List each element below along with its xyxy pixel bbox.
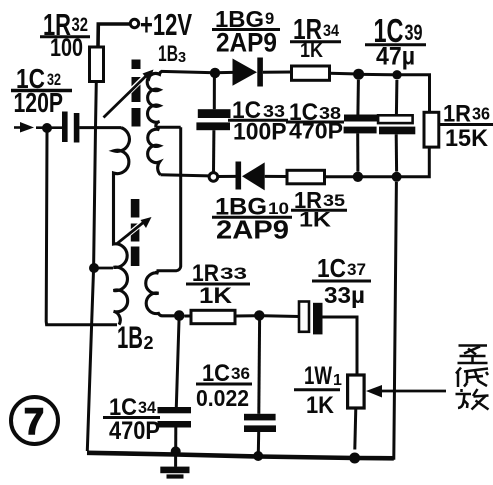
svg-text:120P: 120P [14, 87, 64, 118]
char 低 [456, 368, 461, 374]
core of transformer B3 (dashed bars) [132, 60, 141, 127]
wire left return line from input node down and right to winding bottom [46, 132, 117, 325]
wire C32 to winding top [79, 126, 121, 129]
capacitor C39 electrolytic positive plate (hollow) [378, 115, 413, 123]
wire tap line down to B2 tertiary top [157, 127, 181, 271]
node top rail junction 2 [392, 70, 401, 79]
label R33 [186, 260, 250, 308]
label R34 [290, 14, 341, 62]
wire ring node to diode BG10 [218, 175, 236, 178]
resistor R33 body [191, 310, 235, 323]
resistor R35 body [287, 170, 325, 184]
svg-text:36: 36 [472, 104, 490, 124]
svg-text:3: 3 [178, 50, 186, 66]
wire R36 to bottom rail corner [400, 147, 429, 177]
svg-text:1K: 1K [306, 392, 334, 419]
wire R33 to node [235, 314, 255, 317]
wire node to C37 [264, 314, 299, 318]
capacitor C37 negative plate [313, 303, 323, 335]
label C36 [196, 360, 252, 411]
svg-text:1: 1 [333, 372, 342, 389]
node ring junction at diode row [209, 173, 218, 182]
wire junction to C32 [36, 126, 62, 129]
node top-left junction [210, 68, 220, 78]
transformer B3 secondary winding (right coil upper) [147, 71, 162, 127]
label C39 [365, 12, 426, 71]
svg-text:0.022: 0.022 [196, 385, 249, 411]
capacitor C39 negative plate [379, 127, 415, 135]
wire BG9 to R34 [263, 71, 292, 74]
wiper arrow of W1 [382, 390, 447, 393]
svg-text:1C: 1C [317, 253, 346, 283]
svg-text:39: 39 [405, 20, 423, 45]
svg-text:1B: 1B [117, 319, 143, 355]
svg-text:1W: 1W [304, 362, 332, 390]
svg-text:100P: 100P [233, 119, 287, 146]
svg-text:+12V: +12V [140, 7, 192, 42]
svg-text:34: 34 [138, 398, 157, 417]
label BG10 [212, 194, 292, 245]
svg-text:15K: 15K [445, 125, 489, 152]
label R36 [440, 101, 493, 153]
node bottom rail junction 2 [392, 172, 402, 182]
wire C37 to corner down to potentiometer W1 [323, 317, 358, 375]
svg-text:470P: 470P [109, 417, 160, 445]
wire C33 branch lower stub [212, 130, 215, 172]
wire C34 to ground rail [174, 428, 177, 450]
svg-text:36: 36 [231, 364, 250, 383]
wire node to diode BG9 [220, 71, 233, 74]
wire C39 branch lower stub [395, 134, 398, 171]
label BG9 [212, 6, 280, 58]
svg-text:1K: 1K [199, 283, 232, 308]
label C33 [228, 97, 288, 146]
ground symbol [174, 454, 177, 467]
wire C38 branch upper stub [356, 80, 360, 115]
node top rail junction 1 [353, 69, 364, 80]
capacitor C32 plates [62, 112, 68, 143]
wire C39 branch upper stub [395, 80, 399, 115]
label B2 [117, 319, 154, 355]
svg-text:47µ: 47µ [376, 43, 415, 71]
wire C36 branch stub down [257, 321, 261, 414]
node input junction [42, 123, 52, 133]
node W1 ground junction [349, 453, 360, 464]
label C37 [312, 253, 371, 308]
label B3 [158, 41, 186, 66]
adjustable core arrow of B2 [122, 223, 143, 240]
wire B3 secondary bottom to ring node [161, 175, 210, 176]
transformer B2 tertiary winding (right coil lower) [146, 271, 174, 316]
node R33-C37 junction [254, 310, 264, 320]
wire top rail [364, 73, 393, 76]
label R35 [291, 187, 347, 232]
wire R35 to bottom rail nodes [325, 175, 354, 178]
svg-text:33: 33 [220, 264, 247, 283]
diode BG10 (2AP9) pointing left [236, 162, 242, 190]
svg-text:7: 7 [24, 401, 44, 442]
svg-text:1B: 1B [158, 41, 178, 66]
svg-text:9: 9 [265, 10, 274, 28]
node bottom rail junction 1 [353, 172, 363, 182]
wire C36 to ground rail [257, 432, 260, 454]
adjustable core arrow of B3 [112, 76, 146, 110]
label C34 [103, 394, 160, 445]
core of transformer B2 (dashed bars) [131, 199, 140, 266]
svg-text:33µ: 33µ [324, 282, 365, 308]
terminal +12V circle [130, 19, 138, 27]
capacitor C38 plates [344, 115, 377, 122]
char 放 [460, 389, 463, 392]
svg-text:37: 37 [347, 260, 366, 279]
wire top rail to right corner and down to R36 [401, 75, 430, 113]
wire BG10 to R35 [265, 175, 287, 178]
resistor R34 body [292, 66, 330, 80]
node C36 ground junction [253, 451, 263, 461]
svg-text:2AP9: 2AP9 [216, 28, 277, 58]
wire C34 branch stub down [176, 321, 179, 408]
wire R34 to node B [330, 72, 355, 76]
capacitor C36 plates [244, 414, 276, 421]
capacitor C33 plates [198, 109, 231, 118]
svg-text:2AP9: 2AP9 [216, 215, 289, 245]
diode BG9 (2AP9) pointing right [233, 59, 258, 86]
wire primary tap [94, 267, 113, 270]
wire C33 branch upper stub [213, 78, 216, 110]
wire +12V lead from resistor R32 top [98, 24, 130, 47]
svg-text:100: 100 [50, 34, 83, 62]
label R32 [40, 7, 90, 62]
label to-audio Chinese text 至低放 [456, 346, 489, 410]
wire B3 secondary tap to vertical tap line [156, 126, 181, 129]
label W1 [294, 362, 342, 419]
label C38 [286, 99, 344, 144]
svg-text:1K: 1K [300, 40, 323, 62]
capacitor C37 electrolytic positive plate (hollow) [299, 302, 309, 332]
wire long right line from bottom rail down to ground rail [355, 182, 397, 458]
svg-text:470P: 470P [289, 119, 343, 144]
char 至 [459, 344, 488, 347]
node tap junction [89, 263, 99, 273]
wire B3 secondary top to node [161, 71, 210, 72]
resistor R36 body [424, 112, 439, 147]
label C32 [11, 63, 72, 118]
wire node to R33 [185, 315, 192, 318]
svg-text:32: 32 [72, 15, 89, 36]
node tertiary bottom junction [174, 310, 185, 321]
input arrow [14, 126, 30, 129]
svg-text:1K: 1K [299, 208, 332, 232]
svg-text:34: 34 [323, 22, 340, 40]
potentiometer W1 body [348, 375, 365, 408]
wire long left line from R32 down to ground rail [87, 82, 96, 452]
capacitor C34 plates [158, 407, 192, 413]
node C34 ground junction [171, 446, 181, 456]
wire W1 to ground rail [355, 408, 356, 450]
resistor R32 body [90, 47, 104, 82]
ground rail [87, 453, 394, 459]
wire C38 branch lower stub [356, 133, 359, 171]
wire bottom rail middle [363, 175, 393, 178]
svg-text:2: 2 [144, 333, 154, 353]
figure number circle 7 [11, 397, 58, 444]
transformer B2-B3 primary winding (left coil) [114, 128, 130, 325]
